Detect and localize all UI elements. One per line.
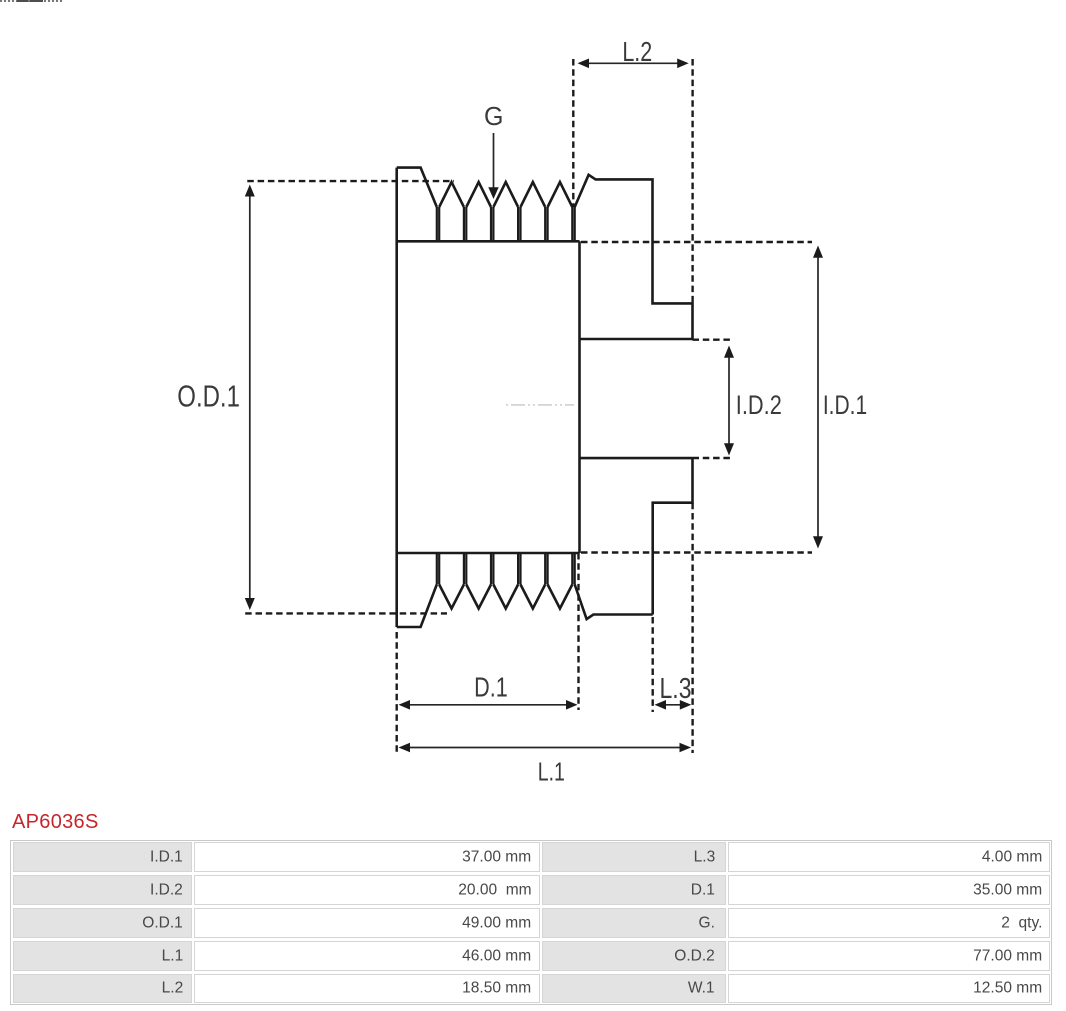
dimension line L.1 <box>408 747 682 749</box>
extension line I.D.2 top <box>693 339 732 341</box>
dimension line L.3 <box>664 704 682 706</box>
pulley rim bottom base line <box>397 552 580 555</box>
arrowhead L.2 right <box>677 59 689 69</box>
svg-text:I.D.2: I.D.2 <box>736 391 782 421</box>
svg-text:L.1: L.1 <box>538 757 565 786</box>
pulley rim top base line <box>397 240 580 243</box>
dimension line L.2 <box>587 62 679 64</box>
table row 5 <box>13 974 192 1004</box>
extension line O.D.1 top <box>247 180 454 182</box>
arrowhead L.1 right <box>680 743 692 753</box>
table row 3 <box>13 908 192 938</box>
pulley top grooves zigzag <box>439 182 572 207</box>
arrowhead I.D.2 top <box>724 346 734 358</box>
svg-text:G: G <box>484 103 503 132</box>
technical drawing <box>0 0 1066 800</box>
pulley bottom groove slots <box>437 553 575 585</box>
arrowhead L.1 left <box>399 743 411 753</box>
extension line L.2 left <box>572 59 574 207</box>
extension line I.D.1 bottom <box>581 551 812 553</box>
svg-text:O.D.1: O.D.1 <box>177 379 240 414</box>
leader line G <box>493 133 495 190</box>
arrowhead L.3 left <box>655 700 667 710</box>
svg-text:I.D.1: I.D.1 <box>823 391 867 421</box>
pulley left edge <box>395 168 398 627</box>
arrowhead O.D.1 top <box>245 185 255 197</box>
faint centerline <box>506 404 574 406</box>
spec table outer border <box>10 840 1052 1005</box>
hub bore bottom line <box>580 457 693 460</box>
part number <box>12 811 99 834</box>
arrowhead O.D.1 bottom <box>245 598 255 610</box>
arrowhead D.1 left <box>399 700 411 710</box>
arrowhead I.D.1 top <box>813 246 823 258</box>
pulley top step <box>397 168 437 207</box>
table row 4 <box>13 941 192 971</box>
extension line L.3 left <box>652 617 654 712</box>
top-left cropped artifact <box>0 0 63 2</box>
arrowhead I.D.2 bottom <box>724 443 734 455</box>
arrowhead G <box>488 187 498 199</box>
hub bore top line <box>580 338 693 341</box>
arrowhead I.D.1 bottom <box>813 536 823 548</box>
dimension line D.1 <box>408 704 568 706</box>
pulley body right edge <box>578 241 581 553</box>
arrowhead L.2 left <box>578 59 590 69</box>
svg-text:L.3: L.3 <box>660 674 692 705</box>
arrowhead D.1 right <box>566 700 578 710</box>
pulley top groove slots <box>437 207 575 241</box>
extension line L.3/L.1 right <box>691 503 693 753</box>
dimension line O.D.1 <box>249 194 251 600</box>
svg-text:D.1: D.1 <box>474 672 508 703</box>
extension line O.D.1 bottom <box>245 612 447 614</box>
extension line D.1 left <box>396 632 398 753</box>
hub top profile <box>575 175 693 339</box>
table row 2 <box>13 875 192 905</box>
dimension line I.D.1 <box>817 256 819 538</box>
dimension line I.D.2 <box>728 355 730 446</box>
hub bottom profile <box>575 458 693 619</box>
table row 1 <box>13 842 192 872</box>
pulley bottom grooves zigzag <box>439 585 572 609</box>
extension line L.2 right <box>691 59 693 303</box>
svg-text:L.2: L.2 <box>622 38 652 68</box>
extension line I.D.2 bottom <box>693 457 732 459</box>
extension line D.1 right <box>577 553 579 710</box>
extension line I.D.1 top <box>581 241 812 243</box>
arrowhead L.3 right <box>680 700 692 710</box>
pulley bottom step <box>397 585 437 628</box>
